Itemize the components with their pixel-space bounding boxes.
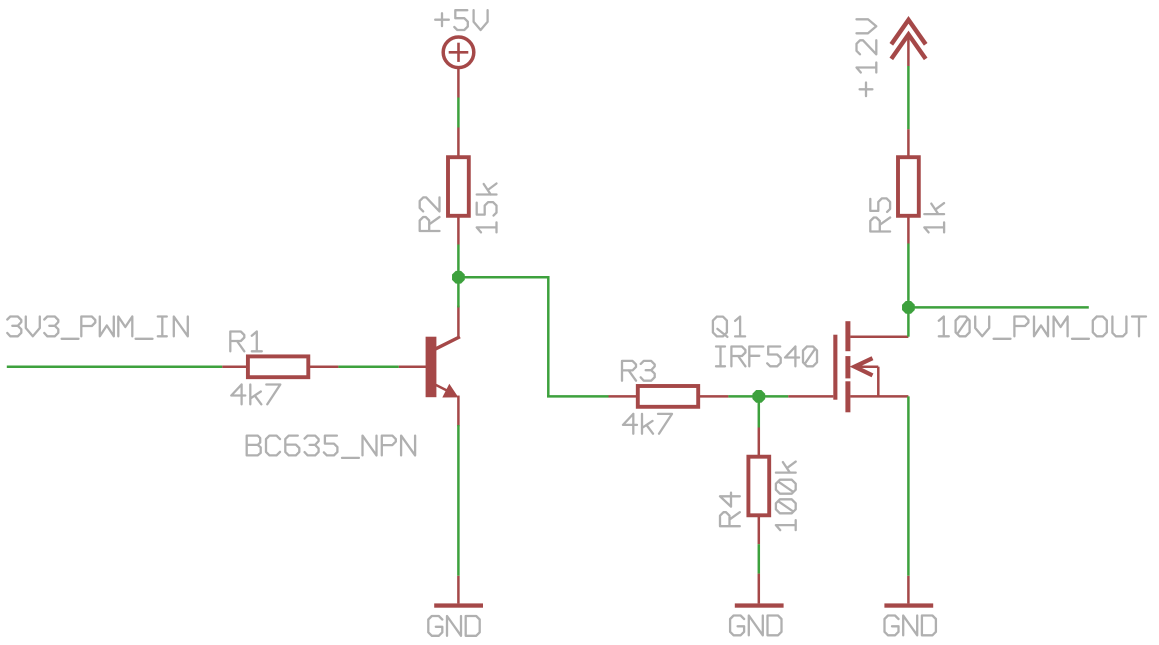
junction collector node — [452, 271, 465, 284]
wire R2 to collector node — [457, 245, 460, 278]
resistor R3 — [609, 386, 729, 407]
wire net 10V_PWM_OUT — [908, 306, 1088, 309]
junction output node — [902, 301, 915, 314]
wire +5V to R2 — [457, 98, 460, 128]
wire collector node down — [457, 277, 460, 307]
wire R1 to base — [338, 366, 398, 369]
power +5V symbol — [443, 37, 474, 98]
wire collector node right — [458, 276, 548, 279]
label R4 — [720, 493, 740, 527]
wire to R3 — [547, 395, 609, 398]
resistor R1 — [222, 356, 338, 377]
wire gate node down to R4 — [758, 396, 761, 427]
junction gate node — [752, 390, 765, 403]
label BC635_NPN — [247, 436, 415, 458]
label Q1 — [713, 317, 745, 337]
value 4k7 (R1) — [231, 385, 280, 405]
label R3 — [622, 361, 655, 381]
wire +12V to R5 — [907, 66, 910, 129]
wire R5 to output node — [907, 244, 910, 308]
label GND (source) — [885, 616, 936, 636]
value IRF540 — [716, 347, 817, 367]
wire source to GND — [907, 396, 910, 575]
value 1k (R5) — [924, 203, 944, 232]
value 15k (R2) — [477, 184, 497, 233]
wire emitter to GND — [457, 425, 460, 576]
net label 3V3_PWM_IN — [7, 317, 188, 339]
ground GND (R4) — [735, 574, 784, 608]
ground GND (emitter) — [434, 576, 483, 608]
label GND (emitter) — [428, 616, 479, 636]
value 4k7 (R3) — [623, 414, 672, 434]
transistor BC635_NPN — [399, 307, 459, 425]
wire R3 to gate node — [728, 395, 758, 398]
ground GND (source) — [884, 576, 933, 608]
transistor Q1 IRF540 — [788, 321, 908, 412]
power +5V label — [435, 10, 487, 30]
wire gate node to gate pin — [759, 395, 789, 398]
power +12V symbol — [891, 20, 925, 66]
net label 10V_PWM_OUT — [939, 317, 1146, 339]
power +12V label — [857, 19, 877, 96]
label GND (R4) — [730, 616, 781, 636]
resistor R2 — [448, 128, 469, 245]
wire drain to output node — [907, 307, 910, 336]
label R5 — [870, 198, 890, 231]
resistor R4 — [748, 428, 769, 545]
label R1 — [230, 332, 261, 352]
wire net 3V3_PWM_IN — [7, 366, 223, 369]
wire R4 to GND — [758, 544, 761, 573]
value 100k (R4) — [776, 462, 796, 530]
resistor R5 — [898, 129, 919, 243]
label R2 — [420, 197, 440, 231]
wire down to gate row — [547, 276, 550, 396]
